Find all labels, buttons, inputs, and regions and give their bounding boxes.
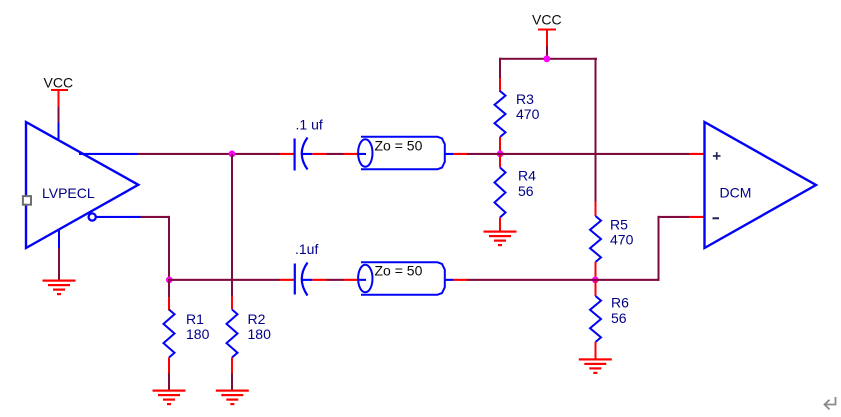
svg-text:.1uf: .1uf	[295, 241, 318, 257]
resistor R2 180	[227, 281, 272, 374]
svg-text:R4: R4	[518, 168, 536, 184]
svg-text:Zo = 50: Zo = 50	[375, 138, 423, 154]
pin stub C2 right	[312, 279, 326, 281]
return mark	[825, 397, 836, 409]
svg-text:R5: R5	[610, 217, 628, 233]
svg-text:R1: R1	[186, 311, 204, 327]
capacitor C2 .1uf	[294, 241, 319, 296]
svg-text:VCC: VCC	[44, 75, 74, 91]
wire R2 to ground	[231, 374, 233, 390]
svg-text:R2: R2	[248, 311, 266, 327]
svg-text:180: 180	[248, 326, 272, 342]
resistor R6 56	[590, 281, 629, 359]
svg-text:R3: R3	[516, 91, 534, 107]
ground under R2	[216, 390, 249, 406]
pin stub C1 right	[312, 153, 326, 155]
wire corner up	[658, 216, 660, 281]
wire C1 to T1	[327, 153, 344, 155]
ground under R4	[484, 231, 517, 247]
wire VCC to LVPECL	[58, 107, 60, 123]
svg-text:470: 470	[516, 106, 540, 122]
pin stub T2 right	[453, 279, 467, 281]
svg-text:LVPECL: LVPECL	[42, 185, 95, 201]
driver U1 LVPECL	[26, 122, 138, 248]
resistor R3 470	[495, 78, 540, 153]
svg-text:VCC: VCC	[532, 12, 562, 28]
junction VCC rail	[543, 55, 550, 62]
junction node top line / R3 R4	[497, 151, 504, 158]
pin stub C1 left	[280, 153, 294, 155]
pin stub DCM +	[689, 153, 705, 155]
wire VCC stub to rail	[546, 46, 548, 59]
svg-text:180: 180	[186, 326, 210, 342]
wire corner down	[168, 216, 170, 281]
transmission line T1 Zo = 50	[358, 137, 453, 169]
pin stub T1 left	[344, 153, 359, 155]
svg-text:56: 56	[611, 310, 627, 326]
input handle (gray square)	[23, 196, 31, 205]
wire C2 to T2	[327, 279, 344, 281]
junction node bottom line / R5 R6	[592, 277, 599, 284]
capacitor C1 .1 uf	[294, 117, 323, 171]
inversion bubble	[89, 213, 96, 220]
svg-text:.1 uf: .1 uf	[296, 117, 323, 133]
pin stub T2 left	[344, 279, 359, 281]
svg-text:DCM: DCM	[720, 185, 752, 201]
wire T1 to DCM +	[467, 153, 689, 155]
junction node top / R2 tap	[229, 151, 236, 158]
wire top: pin to C1	[138, 153, 280, 155]
wire rail left drop	[499, 58, 501, 78]
power symbol VCC (left)	[44, 75, 74, 107]
svg-text:56: 56	[518, 183, 534, 199]
wire bottom: corner to C2	[168, 279, 280, 281]
pin stub DCM minus	[689, 216, 705, 218]
pin LVPECL GND	[58, 230, 60, 249]
wire bubble to corner	[141, 216, 170, 218]
pin LVPECL output complement	[95, 216, 140, 218]
svg-text:470: 470	[610, 232, 634, 248]
wire LVPECL to ground	[58, 248, 60, 280]
junction node R1 tap	[166, 277, 173, 284]
ground under R6	[579, 358, 612, 374]
power symbol VCC (top)	[532, 12, 562, 47]
pin stub C2 left	[280, 279, 294, 281]
pin LVPECL VCC	[58, 123, 60, 141]
resistor R4 56	[495, 154, 537, 231]
wire R2 tap vertical	[231, 154, 233, 281]
wire rail right drop	[595, 58, 597, 202]
transmission line T2 Zo = 50	[358, 262, 453, 294]
wire corner to DCM minus	[658, 216, 690, 218]
svg-text:R6: R6	[611, 295, 629, 311]
wire R1 to ground	[168, 374, 170, 390]
pin LVPECL output true	[79, 153, 138, 155]
resistor R1 180	[164, 281, 210, 374]
ground under R1	[153, 390, 186, 406]
wire VCC rail	[499, 58, 597, 60]
receiver U2 DCM	[705, 122, 817, 248]
resistor R5 470	[590, 202, 634, 280]
ground under LVPECL	[43, 280, 76, 296]
svg-text:Zo = 50: Zo = 50	[375, 263, 423, 279]
pin stub T1 right	[453, 153, 467, 155]
wire T2 to corner	[467, 279, 659, 281]
minus marker	[713, 217, 720, 219]
plus marker	[713, 152, 721, 160]
